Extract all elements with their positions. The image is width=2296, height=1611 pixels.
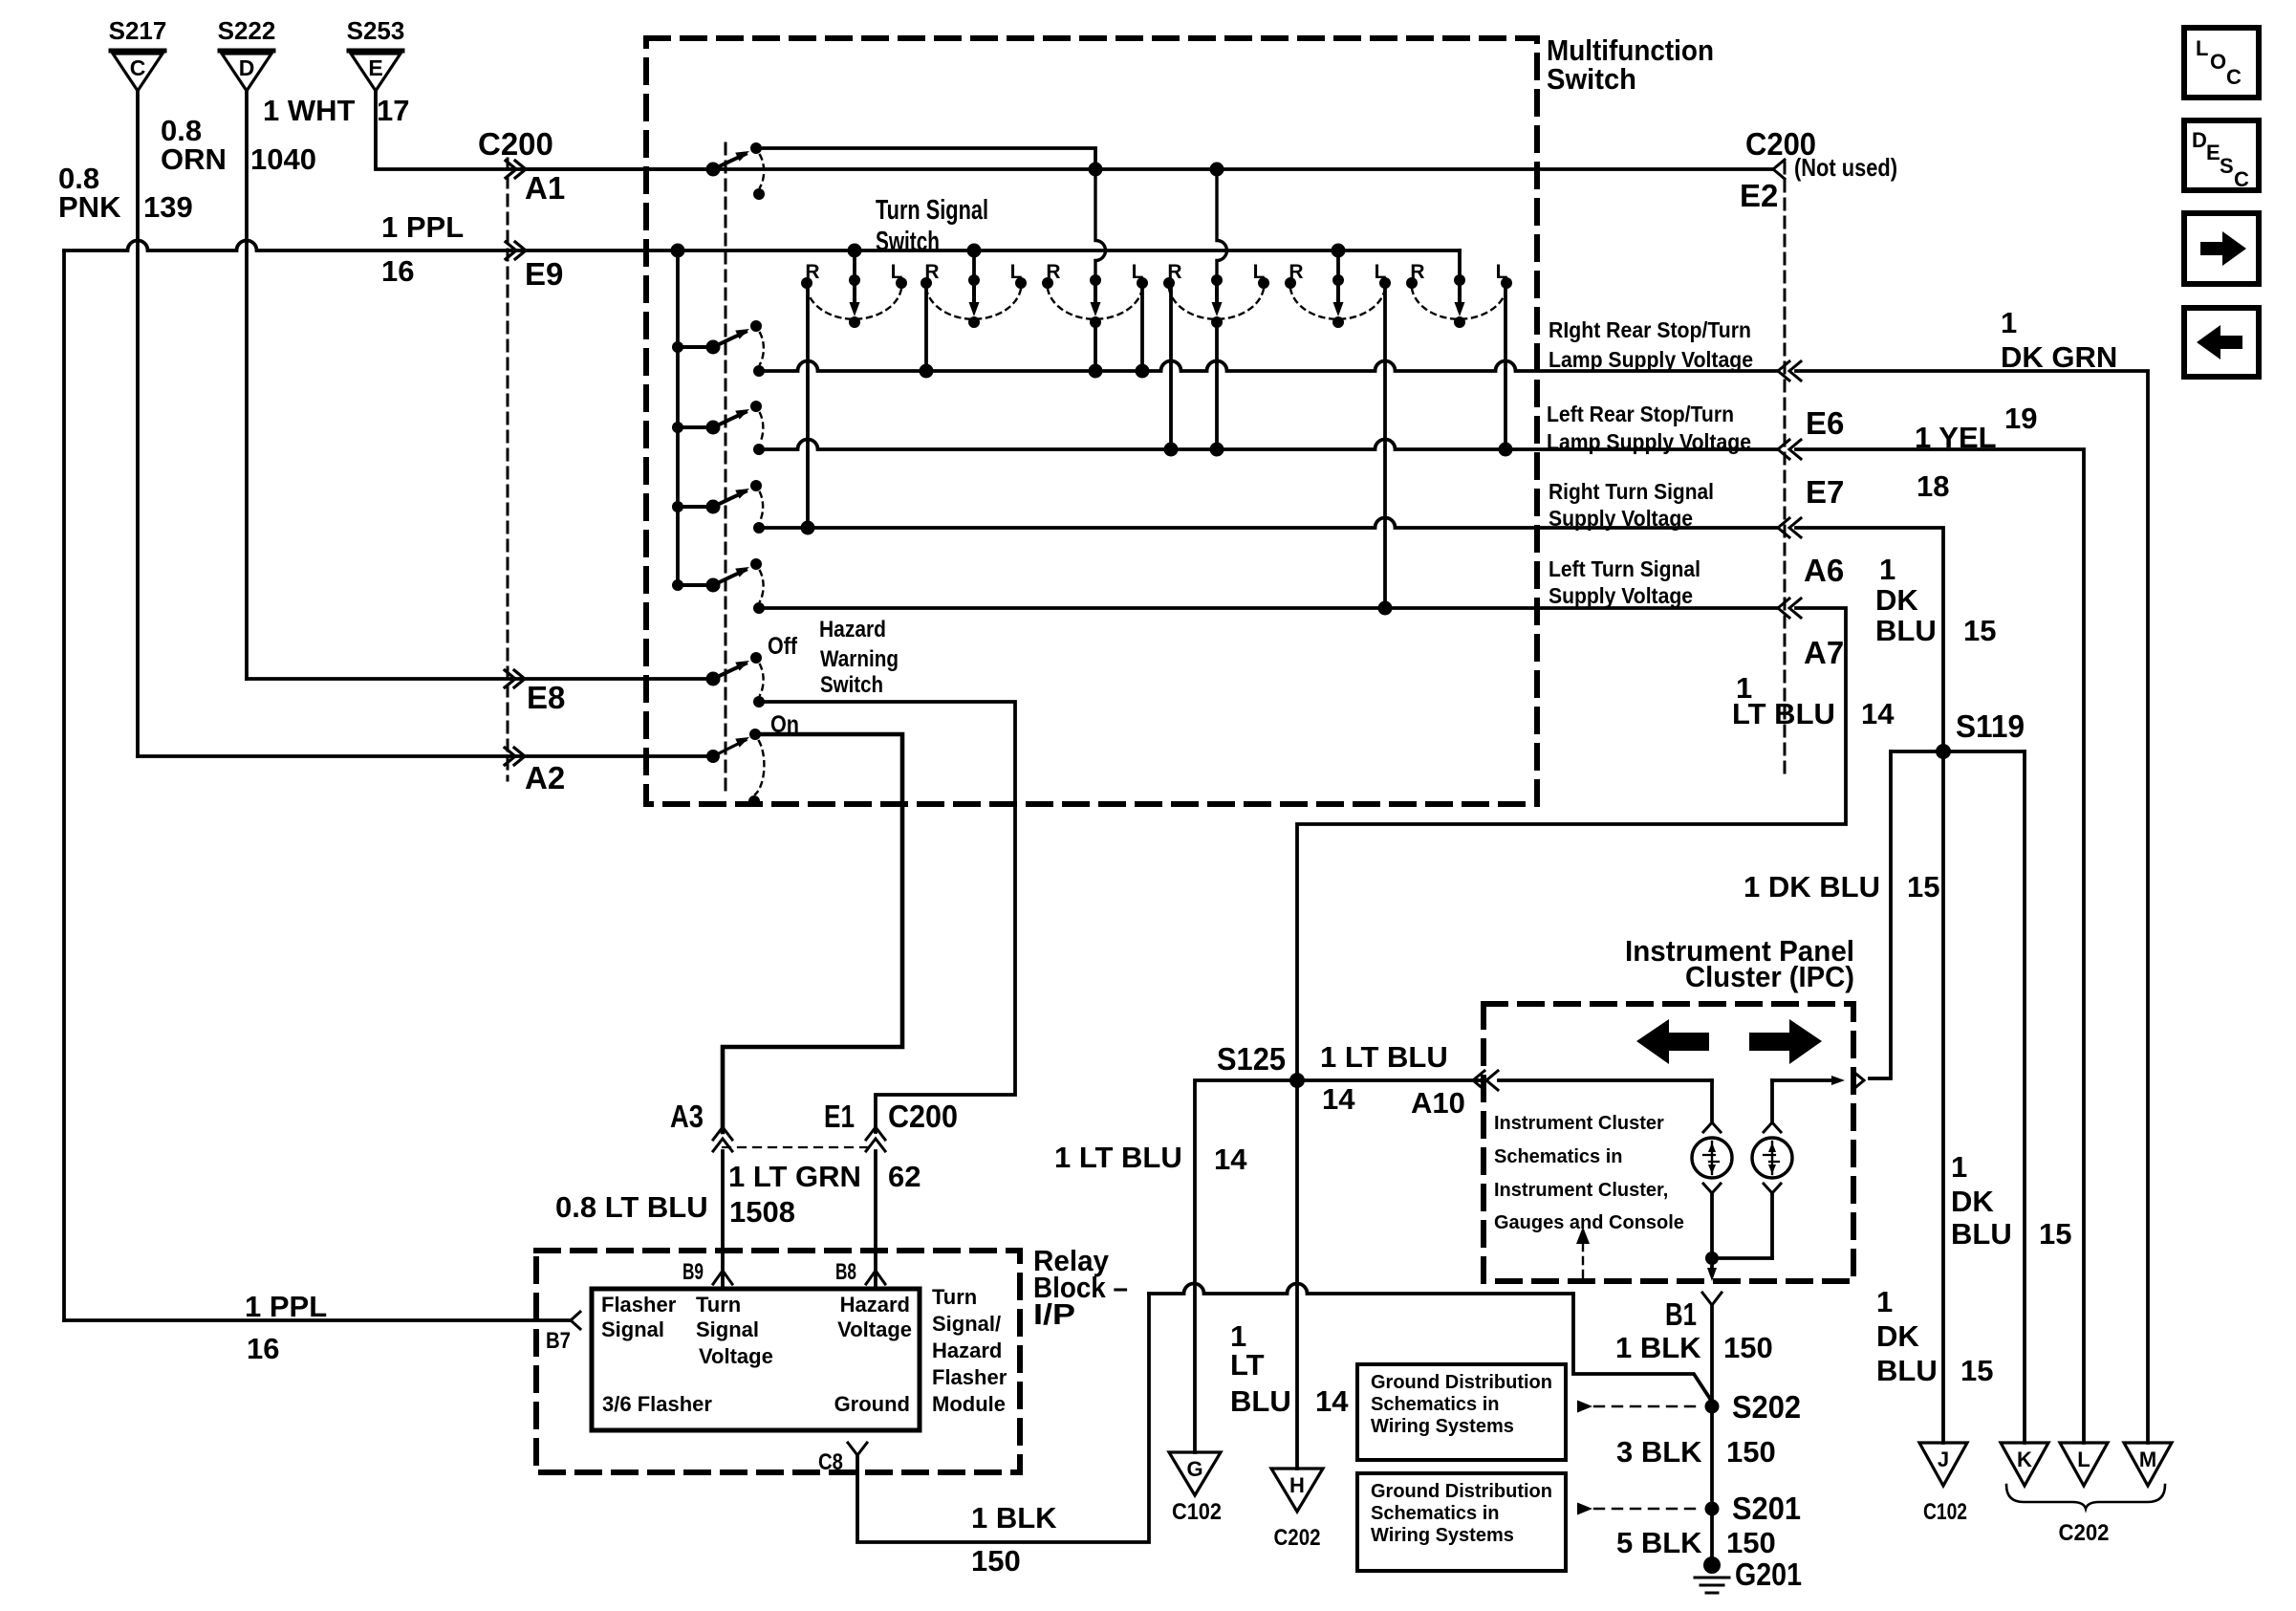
svg-text:H: H [1289,1473,1305,1497]
svg-text:Gauges and Console: Gauges and Console [1494,1212,1684,1233]
svg-text:A6: A6 [1804,553,1844,588]
label Instrument Cluster Schematics note [1494,1113,1684,1233]
label C102 (G) [1172,1499,1222,1525]
svg-text:E6: E6 [1806,405,1844,441]
label C202 (H) [1274,1525,1321,1551]
svg-text:G: G [1186,1457,1202,1481]
svg-text:C: C [2226,65,2242,89]
label C8 [818,1449,843,1475]
svg-text:Wiring Systems: Wiring Systems [1371,1416,1514,1437]
label E6 [1806,405,1844,441]
svg-text:1 PPL: 1 PPL [245,1290,327,1323]
label 17 [377,94,409,127]
svg-text:14: 14 [1322,1082,1355,1116]
turn signal switch contact pair 6 R/L [1406,250,1512,328]
splice S217 connector triangle C [109,16,167,91]
label Turn Signal Voltage [696,1293,773,1368]
label 1 BLK [971,1501,1057,1535]
svg-text:Switch: Switch [1547,62,1636,96]
svg-text:15: 15 [2039,1217,2071,1251]
svg-text:L: L [1010,261,1023,283]
svg-text:Schematics in: Schematics in [1371,1394,1500,1415]
label On [770,711,799,738]
svg-text:S: S [2220,154,2234,178]
svg-text:DK: DK [1951,1185,1994,1218]
svg-text:BLU: BLU [1230,1384,1291,1418]
wire S119 right branch to triangle K [2023,751,2026,1443]
label A3 [670,1099,704,1134]
svg-text:16: 16 [247,1332,279,1365]
svg-text:14: 14 [1214,1143,1247,1176]
svg-text:B7: B7 [546,1328,571,1354]
wire 1 WHT 17 from splice E to connector A1 [376,92,707,169]
label Turn Signal Switch [876,195,988,257]
hazard warning switch On pole [706,729,764,807]
svg-text:Voltage: Voltage [837,1317,912,1341]
svg-text:BLU: BLU [1875,614,1937,647]
label 1 PPL lower [245,1290,327,1323]
svg-text:14: 14 [1861,697,1895,730]
label Turn Signal/Hazard Flasher Module [932,1285,1007,1416]
label Relay Block I/P [1033,1244,1128,1331]
svg-text:E: E [368,55,382,80]
svg-text:139: 139 [143,190,193,224]
connector A3 chevrons [713,1127,732,1151]
wire S125 left branch to triangle G [1195,1080,1297,1452]
connector B1 chevron [1702,1293,1722,1305]
turn signal switch contact pair 1 R/L [801,244,907,329]
wire R1 contact down to Right Turn line [806,289,810,528]
IPC internal wire to A7 [1772,1076,1845,1121]
triangle M connector [2124,1443,2172,1486]
wire A2 from splice C into hazard switch [138,754,711,758]
wire 1 PPL 16 to B7 [64,1318,571,1322]
svg-text:1: 1 [1951,1150,1967,1184]
wire from A1 switch contact to pair 3 [755,148,1095,162]
splice S201 label [1732,1491,1801,1526]
svg-text:E8: E8 [527,680,565,715]
label A6 [1804,553,1844,588]
wire B1 ground path [1703,1306,1721,1574]
splice S222 connector triangle D [218,16,276,91]
svg-text:A10: A10 [1411,1086,1465,1120]
svg-text:A1: A1 [525,170,565,206]
flasher module box [592,1289,920,1430]
right arrow icon [2184,213,2259,284]
switch feed vertical [671,244,685,586]
splice S125 [1217,1041,1305,1088]
svg-text:19: 19 [2004,402,2037,435]
svg-text:Lamp Supply Voltage: Lamp Supply Voltage [1547,429,1751,454]
svg-text:Voltage: Voltage [699,1344,773,1368]
svg-text:Signal/: Signal/ [932,1312,1001,1336]
svg-text:L: L [1253,261,1266,283]
label 150 (C8) [971,1544,1021,1578]
connector chevron B9 [713,1271,732,1284]
svg-text:3 BLK: 3 BLK [1616,1435,1702,1469]
svg-text:DK GRN: DK GRN [2001,340,2117,374]
IPC note arrow [1576,1227,1590,1277]
wire L6 contact down to Left Rear line [1504,289,1507,449]
label C102 (J) [1923,1499,1967,1525]
Multifunction Switch dashed box [646,38,1537,804]
left turn lamp symbol [1692,1122,1732,1258]
splice S253 connector triangle E [347,16,405,91]
svg-text:K: K [2017,1448,2032,1471]
svg-text:1 BLK: 1 BLK [1615,1331,1701,1364]
Ground Distribution box 1 [1357,1364,1566,1460]
svg-text:C200: C200 [888,1099,958,1134]
svg-text:D: D [239,55,255,80]
svg-text:DK: DK [1875,583,1918,617]
svg-text:15: 15 [1907,870,1939,903]
wire 1 DK GRN 19 to triangle M [1796,371,2148,1443]
turn signal switch contact pair 2 R/L [921,244,1027,329]
wire Left Rear Stop/Turn lamp line [759,440,1777,457]
svg-text:E2: E2 [1740,178,1778,213]
svg-text:C: C [2234,167,2249,191]
svg-text:Turn Signal: Turn Signal [876,195,988,226]
wire 1 DK BLU 15 A6 to S119 [1796,528,1943,751]
wire from splice D down to E8 row [245,92,249,679]
connector chevron A7 (IPC) [1852,1071,1864,1090]
svg-text:18: 18 [1917,469,1949,503]
junction dot c4 on E2 line [1210,163,1224,177]
label Multifunction Switch [1547,33,1714,96]
svg-text:17: 17 [377,94,409,127]
triangle J connector [1919,1443,1967,1486]
connector chevron E7 [1778,440,1801,459]
svg-text:3/6 Flasher: 3/6 Flasher [602,1392,712,1416]
svg-text:1: 1 [2001,306,2017,339]
connector chevron A7 [1778,599,1801,618]
svg-text:1508: 1508 [729,1195,795,1229]
label Left Rear Stop/Turn [1547,402,1751,454]
wire hazard On contact to A3 path [723,734,902,1132]
wire C8 ground to S202 [857,1284,1712,1543]
wire 1 PPL 16 bus E9 with hops over splice wires [64,241,1460,1321]
label 1 DK BLU 15 (J) [1876,1285,1993,1387]
svg-text:Flasher: Flasher [932,1365,1007,1389]
svg-text:L: L [1496,261,1508,283]
svg-text:S217: S217 [109,16,167,45]
label (Not used) [1794,153,1897,182]
Ground Distribution box 2 [1357,1473,1566,1571]
svg-text:E9: E9 [525,256,563,292]
wire S119 down to triangle J [1941,751,1945,1443]
svg-text:Schematics in: Schematics in [1494,1146,1623,1167]
svg-text:A2: A2 [525,760,565,795]
svg-text:B9: B9 [682,1259,704,1285]
svg-text:C102: C102 [1923,1499,1967,1525]
svg-text:Turn: Turn [932,1285,977,1309]
label A2 [525,760,565,795]
wire L5 contact down to Left Turn line [1383,289,1387,608]
label Right Rear Stop/Turn [1549,317,1753,372]
wire E1 to B8 [874,1151,877,1289]
connector chevron E9 [506,242,526,259]
triangle H connector [1271,1469,1323,1512]
connector E2 chevron [1773,160,1785,179]
svg-text:Signal: Signal [601,1317,664,1341]
svg-text:0.8 LT BLU: 0.8 LT BLU [555,1190,708,1224]
label 19 [2004,402,2037,435]
svg-text:1: 1 [1876,1285,1893,1318]
label 0.8 ORN [161,114,227,176]
connector chevron A6 [1778,518,1801,537]
svg-text:Schematics in: Schematics in [1371,1503,1500,1524]
label E8 [527,680,565,715]
label E9 [525,256,563,292]
svg-text:C102: C102 [1172,1499,1222,1525]
wire Right Rear Stop/Turn lamp line [759,361,1777,379]
svg-text:Ground Distribution: Ground Distribution [1371,1481,1552,1502]
label B7 [546,1328,571,1354]
svg-text:(Not used): (Not used) [1794,153,1897,182]
turn signal switch pole 2 [672,401,765,455]
label Right Turn Signal [1549,479,1714,531]
connector chevron C8 [848,1443,867,1455]
junction dot c3 on E2 line [1089,163,1103,177]
label Instrument Panel Cluster (IPC) [1625,934,1854,993]
Instrument Panel Cluster dashed box [1484,1004,1853,1281]
label 1 LT BLU 14 (G) [1054,1141,1247,1176]
wire c4 down through E9 bus to Left Rear line [1217,175,1227,449]
splice S119 [1891,708,2025,759]
svg-text:Hazard: Hazard [840,1293,910,1317]
svg-text:B8: B8 [835,1259,856,1285]
svg-text:1040: 1040 [250,142,316,176]
label A10 [1411,1086,1465,1120]
svg-text:Warning: Warning [820,646,899,672]
svg-text:Instrument Cluster,: Instrument Cluster, [1494,1180,1668,1201]
svg-text:J: J [1938,1448,1949,1471]
svg-text:R: R [805,261,819,283]
svg-text:Hazard: Hazard [819,617,886,642]
wire Left Turn Signal line [759,601,1777,616]
turn signal switch contact pair 3 R/L [1042,261,1148,328]
svg-text:E7: E7 [1806,474,1844,510]
svg-text:M: M [2139,1448,2156,1471]
label 16 [381,254,414,288]
wire E2 node from pivot to connector E2 [713,167,1773,171]
svg-text:Cluster (IPC): Cluster (IPC) [1685,960,1854,993]
label 1 LT GRN [728,1160,861,1193]
wire S119 left branch to IPC A7 [1870,751,1891,1078]
svg-text:A3: A3 [670,1099,704,1134]
Relay Block dashed box [536,1251,1020,1472]
label Hazard Voltage [837,1293,912,1341]
label 62 [888,1160,921,1193]
svg-text:R: R [1167,261,1181,283]
svg-text:5 BLK: 5 BLK [1616,1526,1702,1559]
svg-text:RIght Rear Stop/Turn: RIght Rear Stop/Turn [1549,317,1751,342]
svg-text:C202: C202 [2059,1520,2110,1546]
svg-text:1 LT BLU: 1 LT BLU [1054,1141,1182,1174]
turn signal switch pole 3 [672,480,765,533]
svg-text:150: 150 [971,1544,1021,1578]
wire 1 LT BLU 14 A7 toward S125 [1297,608,1846,1080]
svg-text:Switch: Switch [820,672,883,698]
label 1040 [250,142,316,176]
label 1 DK BLU 15 (S119 left) [1744,870,1939,903]
svg-text:R: R [1046,261,1060,283]
label 1508 [729,1195,795,1229]
connector chevron E8 [505,670,525,687]
label 1 DK GRN [2001,306,2117,374]
wire c3 down through E9 bus to Right Rear line [1095,175,1106,371]
connector C200 dashed line (left) [507,159,509,780]
triangle G connector [1169,1452,1221,1495]
label C200 left [478,126,553,162]
label 0.8 PNK [58,162,121,224]
svg-text:Left Turn Signal: Left Turn Signal [1549,556,1700,581]
svg-text:Wiring Systems: Wiring Systems [1371,1525,1514,1546]
wire Right Turn Signal line [759,518,1777,535]
svg-text:15: 15 [1963,614,1996,647]
connector chevron B8 [866,1271,885,1284]
turn signal switch pole 4 [672,558,765,614]
svg-text:L: L [1375,261,1387,283]
svg-text:L: L [2077,1448,2090,1471]
left arrow icon [2184,308,2259,377]
svg-text:DK: DK [1876,1319,1919,1353]
label C200 at E1 [888,1099,958,1134]
connector dashed link A3-E1 [723,1146,876,1148]
svg-text:BLU: BLU [1876,1354,1938,1387]
svg-text:S222: S222 [218,16,276,45]
label Hazard Warning Switch [819,617,899,698]
label 1 WHT [263,94,356,127]
label E7 [1806,474,1844,510]
svg-text:1 YEL: 1 YEL [1915,421,1997,454]
label Off [768,633,798,660]
svg-text:I/P: I/P [1033,1297,1075,1331]
label 5 BLK 150 [1616,1526,1776,1559]
svg-text:14: 14 [1315,1384,1349,1418]
label 1 BLK 150 [1615,1331,1773,1364]
svg-text:1: 1 [1879,553,1895,586]
label 1 DK BLU 15 (A6) [1875,553,1996,647]
label 1 PPL [381,210,464,244]
mechanical link dashed line [725,143,727,794]
svg-text:R: R [924,261,939,283]
svg-text:1 PPL: 1 PPL [381,210,464,244]
turn signal switch contact pair 4 R/L [1163,261,1269,328]
connector chevron A1 [506,161,526,178]
brace C202 [2006,1485,2165,1509]
svg-text:G201: G201 [1735,1557,1802,1592]
label Flasher Signal [601,1293,677,1341]
svg-text:15: 15 [1960,1354,1993,1387]
hazard warning switch Off pole [706,652,766,708]
label B8 [835,1259,856,1285]
svg-text:R: R [1289,261,1303,283]
label 0.8 LT BLU [555,1190,708,1224]
svg-text:A7: A7 [1804,635,1844,670]
triangle L connector [2060,1443,2108,1486]
wire R2 contact down to Right Rear line [924,289,928,371]
splice S202 label [1732,1389,1801,1425]
svg-text:Lamp Supply Voltage: Lamp Supply Voltage [1549,347,1753,372]
svg-text:Supply Voltage: Supply Voltage [1549,583,1693,608]
label 16 lower [247,1332,279,1365]
svg-text:Left Rear Stop/Turn: Left Rear Stop/Turn [1547,402,1734,426]
wire S125 down to triangle H [1295,1080,1299,1469]
svg-text:Supply Voltage: Supply Voltage [1549,506,1693,531]
svg-text:150: 150 [1726,1435,1776,1469]
turn signal switch pole A1 [706,142,766,200]
svg-text:L: L [891,261,903,283]
svg-text:Instrument Cluster: Instrument Cluster [1494,1113,1664,1134]
svg-text:O: O [2210,50,2226,74]
connector C200 dashed line (right) [1784,163,1787,780]
label 3/6 Flasher [602,1392,712,1416]
svg-text:S253: S253 [347,16,405,45]
svg-text:C200: C200 [478,126,553,162]
wire from splice C down to A2 row [136,92,140,756]
label A1 [525,170,565,206]
wire A3 to B9 [721,1151,725,1289]
label 1 YEL [1915,421,1997,454]
right turn indicator arrow icon [1749,1019,1822,1064]
svg-text:S201: S201 [1732,1491,1801,1526]
connector chevron B7 [571,1312,580,1329]
svg-text:150: 150 [1726,1526,1776,1559]
label 18 [1917,469,1949,503]
svg-text:62: 62 [888,1160,921,1193]
svg-text:1 LT BLU: 1 LT BLU [1320,1040,1448,1074]
svg-text:L: L [2196,36,2208,60]
label Ground [834,1392,910,1416]
connector chevron E6 [1778,361,1801,381]
svg-text:C202: C202 [1274,1525,1321,1551]
IPC lamp join [1705,1252,1772,1281]
label 139 [143,190,193,224]
svg-text:Hazard: Hazard [932,1339,1002,1362]
label C202 (KLM) [2059,1520,2110,1546]
svg-text:150: 150 [1723,1331,1773,1364]
label B1 [1665,1296,1697,1332]
turn signal switch contact pair 5 R/L [1285,244,1391,329]
svg-text:LT: LT [1230,1348,1265,1382]
svg-text:PNK: PNK [58,190,121,224]
wire A1 into switch [524,167,713,171]
svg-text:S202: S202 [1732,1389,1801,1425]
label 1 LT BLU 14 (H) [1230,1319,1349,1418]
svg-text:Flasher: Flasher [601,1293,677,1317]
wire R4 contact down to Left Rear line [1169,289,1173,449]
dashed arrow to S201 [1577,1503,1700,1515]
svg-text:D: D [2192,128,2207,152]
dashed arrow to S202 [1577,1401,1700,1413]
svg-text:1 WHT: 1 WHT [263,94,356,127]
svg-text:E: E [2206,141,2220,164]
svg-text:Module: Module [932,1392,1006,1416]
svg-text:Ground: Ground [834,1392,910,1416]
label A7 right [1804,635,1844,670]
right turn lamp symbol [1752,1122,1792,1258]
svg-text:B1: B1 [1665,1296,1697,1332]
ground G201 symbol [1695,1557,1802,1593]
svg-text:Off: Off [768,633,798,660]
label 3 BLK 150 [1616,1435,1776,1469]
label Left Turn Signal [1549,556,1700,608]
connector E1 chevrons [866,1127,885,1151]
LOC icon [2184,28,2259,98]
svg-text:L: L [1132,261,1144,283]
svg-text:R: R [1410,261,1424,283]
